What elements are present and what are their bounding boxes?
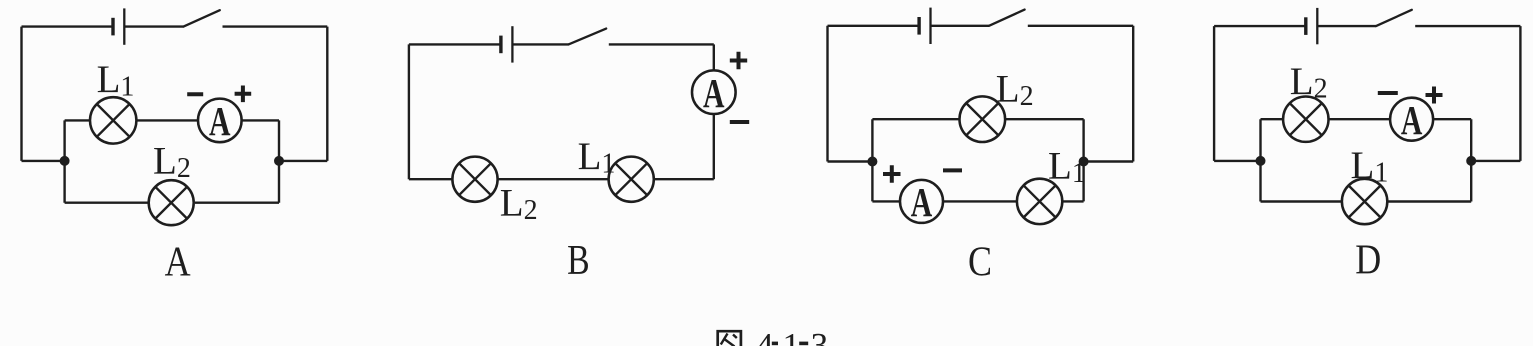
wire B switch to right corner xyxy=(609,43,714,45)
wire B bottom left xyxy=(409,178,452,180)
battery B xyxy=(501,26,513,62)
ammeter A circuit D xyxy=(1390,97,1433,143)
wire C switch to right corner xyxy=(1028,25,1133,27)
svg-text:C: C xyxy=(968,239,992,285)
plus label ammeter C xyxy=(883,165,901,183)
svg-text:A: A xyxy=(911,179,933,225)
svg-text:L2: L2 xyxy=(153,140,191,185)
svg-text:A: A xyxy=(1401,97,1423,143)
wire C bottom branch middle xyxy=(943,200,1017,202)
wire B right vertical lower xyxy=(713,114,715,179)
svg-text:A: A xyxy=(165,240,192,286)
wire B right vertical upper xyxy=(713,44,715,70)
wire A right vertical xyxy=(326,27,328,161)
wire C node to mid-right xyxy=(1084,160,1134,162)
minus label ammeter C xyxy=(943,168,962,172)
plus label ammeter B xyxy=(730,52,747,69)
node dot D right xyxy=(1466,156,1476,166)
wire D right vertical xyxy=(1519,26,1521,161)
ammeter A circuit C xyxy=(900,179,943,225)
svg-text:4: 4 xyxy=(756,326,774,346)
lamp L1 circuit C xyxy=(1017,179,1062,224)
switch D xyxy=(1376,10,1412,26)
svg-text:A: A xyxy=(703,70,725,116)
wire A bottom branch right xyxy=(195,201,279,203)
minus label ammeter B xyxy=(730,120,749,124)
wire D mid-left to node xyxy=(1214,160,1260,162)
svg-text:B: B xyxy=(567,238,590,284)
wire D battery to switch xyxy=(1317,25,1376,27)
wire C top branch right xyxy=(1005,118,1084,120)
svg-text:3: 3 xyxy=(811,326,829,346)
wire D parallel-box right vertical xyxy=(1470,119,1472,201)
wire C bottom branch right xyxy=(1062,200,1083,202)
switch C xyxy=(989,10,1025,26)
wire A battery to switch xyxy=(124,25,183,27)
wire A bottom branch left xyxy=(65,201,149,203)
svg-text:L2: L2 xyxy=(500,181,538,226)
lamp L2 circuit D xyxy=(1283,97,1328,142)
lamp L2 circuit C xyxy=(960,96,1006,142)
wire A node to mid-right xyxy=(279,160,327,162)
svg-text:L2: L2 xyxy=(996,68,1034,113)
plus label ammeter D xyxy=(1426,87,1443,104)
node dot A left xyxy=(60,156,70,166)
wire D bottom branch left xyxy=(1261,200,1342,202)
wire C bottom branch left xyxy=(872,200,900,202)
svg-text:L2: L2 xyxy=(1290,60,1328,105)
wire A top branch left xyxy=(65,119,91,121)
switch B xyxy=(569,29,607,45)
wire A switch to right corner xyxy=(223,25,328,27)
svg-text:A: A xyxy=(209,98,231,144)
wire D top branch right xyxy=(1433,118,1471,120)
svg-text:L1: L1 xyxy=(1351,144,1389,189)
svg-text:L1: L1 xyxy=(578,135,616,180)
caption hanzi tu (figure) glyph xyxy=(718,331,741,346)
wire B battery to switch xyxy=(512,43,568,45)
battery D xyxy=(1306,8,1318,44)
lamp L2 circuit A xyxy=(149,180,194,225)
wire C parallel-box right vertical xyxy=(1082,119,1084,201)
ammeter A circuit B xyxy=(692,70,736,116)
wire A parallel-box left vertical xyxy=(63,120,65,202)
wire A top branch middle xyxy=(136,119,198,121)
lamp L1 circuit A xyxy=(90,97,136,143)
wire D switch to right corner xyxy=(1415,25,1520,27)
wire A left vertical xyxy=(20,27,22,161)
wire D top branch left xyxy=(1261,118,1284,120)
wire B bottom middle xyxy=(498,178,608,180)
ammeter A circuit A xyxy=(198,98,242,144)
node dot C right xyxy=(1079,157,1089,167)
plus label ammeter A xyxy=(235,86,252,103)
caption hyphen 1 xyxy=(772,342,778,346)
wire C top branch left xyxy=(872,118,959,120)
caption hyphen 2 xyxy=(799,342,808,346)
lamp L2 circuit B xyxy=(452,157,497,202)
wire A top branch right xyxy=(242,119,279,121)
wire D top-left segment xyxy=(1214,25,1305,27)
wire D bottom branch right xyxy=(1387,200,1471,202)
node dot C left xyxy=(867,157,877,167)
minus label ammeter A xyxy=(187,92,203,96)
wire D left vertical xyxy=(1213,26,1215,161)
battery C xyxy=(919,8,930,44)
wire C right vertical xyxy=(1132,26,1134,162)
battery A xyxy=(113,8,124,44)
lamp L1 circuit D xyxy=(1342,179,1387,224)
wire D top branch middle xyxy=(1329,118,1391,120)
wire C left vertical xyxy=(826,26,828,162)
wire B left vertical xyxy=(408,44,410,179)
lamp L1 circuit B xyxy=(609,157,654,202)
wire C parallel-box left vertical xyxy=(871,119,873,201)
wire C top-left segment xyxy=(828,25,919,27)
switch A xyxy=(184,10,220,26)
wire C mid-left to node xyxy=(828,160,873,162)
svg-text:L1: L1 xyxy=(97,58,135,103)
svg-text:L1: L1 xyxy=(1048,145,1086,190)
wire C battery to switch xyxy=(931,25,990,27)
node dot D left xyxy=(1256,156,1266,166)
wire A parallel-box right vertical xyxy=(278,120,280,202)
wire B top-left segment xyxy=(409,43,500,45)
svg-text:D: D xyxy=(1355,238,1381,284)
wire B bottom right xyxy=(654,178,714,180)
minus label ammeter D xyxy=(1378,91,1398,95)
wire A mid-left to node xyxy=(22,160,65,162)
wire D parallel-box left vertical xyxy=(1259,119,1261,201)
wire D node to mid-right xyxy=(1471,160,1520,162)
wire A top-left segment xyxy=(22,25,113,27)
node dot A right xyxy=(274,156,284,166)
svg-text:1: 1 xyxy=(783,326,801,346)
